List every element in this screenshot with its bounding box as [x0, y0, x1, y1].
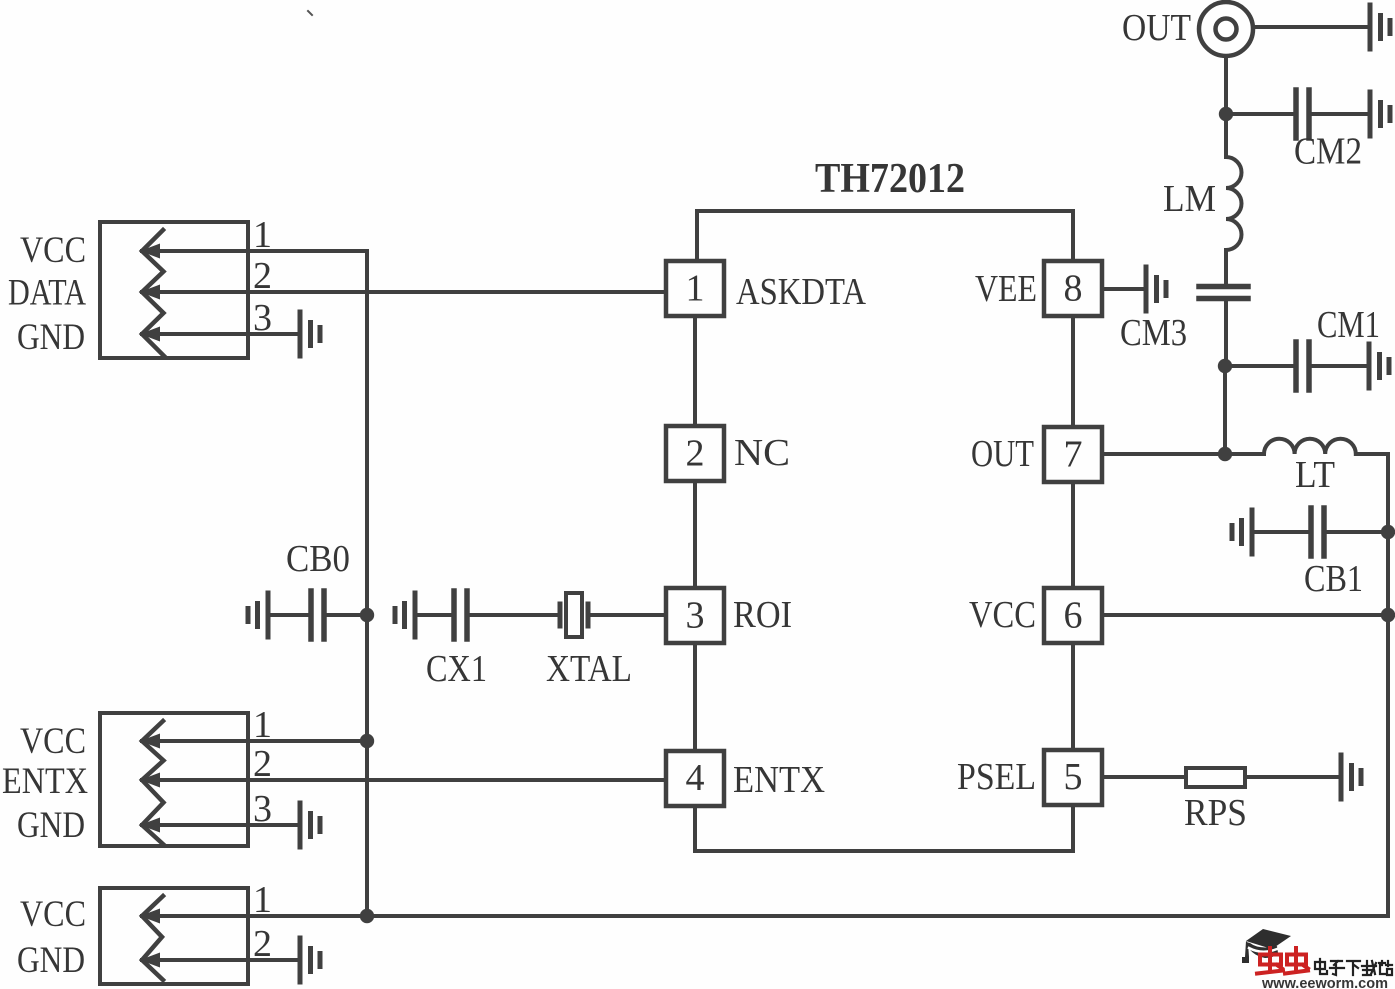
IC pin 5 box — [1044, 750, 1102, 805]
svg-text:DATA: DATA — [8, 273, 86, 314]
wire J1 pin2 to IC pin1 — [142, 290, 666, 294]
ground (RPS) — [1341, 755, 1361, 799]
wire J2 pin3 to ground — [142, 823, 300, 827]
wire CM1 junction down — [1223, 366, 1227, 454]
svg-text:CB0: CB0 — [286, 538, 350, 580]
connector J3 box — [100, 888, 248, 984]
IC pin 6 box — [1044, 588, 1102, 643]
svg-text:ROI: ROI — [733, 594, 792, 636]
svg-text:7: 7 — [1064, 434, 1083, 476]
antenna OUT connector — [1199, 2, 1253, 56]
capacitor CB0 — [248, 593, 268, 637]
inductor LT — [1264, 439, 1356, 454]
svg-text:CX1: CX1 — [426, 648, 487, 690]
junction J3-bus — [360, 909, 374, 923]
svg-text:LT: LT — [1295, 454, 1335, 496]
svg-text:CB1: CB1 — [1304, 558, 1363, 600]
svg-text:LM: LM — [1163, 178, 1216, 220]
IC bottom wire — [695, 806, 1073, 851]
capacitor CM1 — [1225, 364, 1296, 368]
IC pin 7 box — [1044, 427, 1102, 482]
svg-text:RPS: RPS — [1184, 792, 1247, 834]
svg-text:VCC: VCC — [969, 594, 1036, 636]
scan speck top — [308, 11, 312, 15]
svg-text:www.eeworm.com: www.eeworm.com — [1261, 975, 1388, 989]
capacitor CM3 (ground) — [1146, 267, 1166, 311]
wire vertical bus — [365, 251, 369, 916]
crystal XTAL — [558, 604, 563, 626]
junction J2-bus — [360, 734, 374, 748]
svg-text:ENTX: ENTX — [2, 761, 88, 802]
svg-text:VEE: VEE — [975, 268, 1037, 310]
wire J2 pin2 to IC pin4 — [142, 778, 666, 782]
junction pin6-right edge — [1381, 608, 1395, 622]
capacitor CX1 — [395, 593, 415, 637]
svg-text:ASKDTA: ASKDTA — [736, 271, 866, 313]
watermark chong char 2 — [1285, 948, 1308, 974]
svg-text:TH72012: TH72012 — [815, 156, 965, 202]
svg-text:OUT: OUT — [1122, 7, 1191, 49]
ground (J2 pin3) — [300, 803, 320, 847]
watermark text dianzi — [1315, 959, 1392, 975]
junction CB0-bus — [360, 608, 374, 622]
IC pin 3 box — [666, 588, 724, 643]
svg-text:1: 1 — [686, 268, 705, 310]
wire J1 pin1 to bus — [142, 249, 367, 253]
svg-text:VCC: VCC — [20, 894, 86, 935]
svg-text:PSEL: PSEL — [957, 756, 1036, 798]
IC pin 1 box — [666, 261, 724, 316]
connector J2 arrowheads — [140, 734, 160, 833]
ground (J3 pin2) — [300, 938, 320, 982]
connector J2 box — [100, 713, 248, 846]
ground (antenna) — [1370, 5, 1390, 49]
connector J1 arrowheads — [140, 244, 160, 342]
svg-text:GND: GND — [17, 317, 85, 358]
svg-text:CM3: CM3 — [1120, 312, 1187, 354]
wire pin7 to LT — [1102, 452, 1264, 456]
ground (J1 pin3) — [300, 312, 320, 356]
svg-text:VCC: VCC — [20, 721, 86, 762]
junction antenna/CM2 — [1219, 107, 1233, 121]
junction CM1 — [1218, 359, 1232, 373]
wire pin6 to right edge — [1102, 613, 1388, 617]
resistor RPS — [1186, 768, 1245, 787]
wire J3 pin1 bottom long wire — [142, 914, 1388, 918]
svg-text:CM2: CM2 — [1294, 131, 1362, 173]
IC pin 8 box — [1044, 261, 1102, 316]
wire antenna to ground — [1253, 25, 1370, 29]
connector J3 zigzag — [142, 896, 163, 980]
svg-text:XTAL: XTAL — [546, 648, 632, 690]
watermark chong char 1 — [1257, 948, 1283, 974]
svg-text:VCC: VCC — [20, 230, 86, 271]
svg-text:OUT: OUT — [971, 433, 1034, 475]
wire antenna down — [1224, 56, 1228, 114]
watermark graduation cap — [1242, 929, 1291, 963]
wire J2 pin1 to bus — [142, 739, 367, 743]
svg-text:3: 3 — [686, 595, 705, 637]
capacitor CB1 — [1381, 525, 1395, 539]
svg-text:CM1: CM1 — [1317, 304, 1380, 346]
wire right edge vertical — [1386, 454, 1390, 916]
junction pin7 wire — [1218, 447, 1232, 461]
svg-text:5: 5 — [1064, 756, 1083, 798]
wire pin8 to CM3 ground — [1102, 287, 1146, 291]
wire J3 pin2 to ground — [142, 958, 300, 962]
svg-text:GND: GND — [17, 805, 85, 846]
svg-text:4: 4 — [686, 757, 705, 799]
inductor LM — [1224, 114, 1228, 157]
svg-text:8: 8 — [1064, 268, 1083, 310]
IC pin 2 box — [666, 426, 724, 481]
connector J1 zigzag — [142, 230, 164, 356]
svg-text:2: 2 — [686, 433, 705, 475]
svg-text:6: 6 — [1064, 595, 1083, 637]
connector J2 zigzag — [142, 721, 164, 845]
svg-text:ENTX: ENTX — [733, 759, 825, 801]
capacitor CM2 — [1226, 112, 1296, 116]
IC pin 4 box — [666, 751, 724, 806]
wire pin5 to RPS — [1103, 775, 1186, 779]
svg-text:GND: GND — [17, 940, 85, 981]
IC top wire — [697, 211, 1073, 261]
connector J3 arrowheads — [140, 909, 160, 968]
IC right side wires — [1071, 316, 1075, 749]
wire J1 pin3 to ground — [142, 332, 300, 336]
svg-text:NC: NC — [734, 432, 790, 474]
series capacitor below LM — [1224, 250, 1228, 284]
IC left side wires — [693, 316, 697, 750]
connector J1 box — [100, 222, 248, 358]
